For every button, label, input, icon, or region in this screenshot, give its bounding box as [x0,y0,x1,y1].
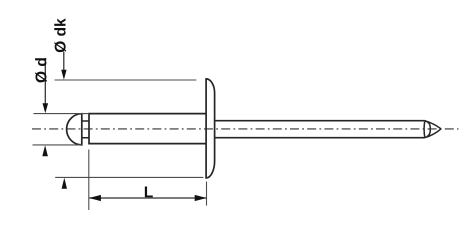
dim Ø d bottom extension line [33,144,83,146]
dim Ø dk bottom extension line [55,176,203,178]
dim Ø d up arrow [42,145,48,156]
rivet body [89,114,206,144]
mandrel rod [215,121,425,138]
dim Ø d top extension line [33,113,89,115]
label Ø dk [54,18,66,52]
dim L right extension line [206,182,208,206]
dim Ø d down arrow [43,58,49,113]
label L [145,187,153,198]
dim L line [89,195,207,201]
flange [206,79,215,178]
mandrel head [67,114,82,145]
dim L left extension line [88,150,90,211]
mandrel stem neck [82,121,89,138]
label Ø d [35,58,47,82]
dim Ø dk up arrow [62,178,67,189]
mandrel tip [424,121,441,138]
center line [32,128,459,130]
dim Ø dk top extension line [55,79,197,81]
dim Ø dk down arrow [61,52,66,80]
